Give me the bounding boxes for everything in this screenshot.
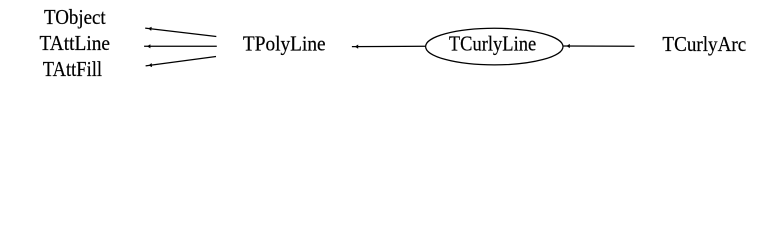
- arrow TCurlyLine to TPolyLine : head: [355, 45, 358, 49]
- ellipse around TCurlyLine: [426, 28, 563, 65]
- arrow TCurlyLine to TPolyLine : shaft: [352, 45, 426, 47]
- arrow TPolyLine to TObject : head: [148, 27, 152, 31]
- svg-text:TCurlyLine: TCurlyLine: [449, 32, 536, 56]
- arrow TPolyLine to TAttLine : shaft: [144, 45, 217, 47]
- svg-text:TPolyLine: TPolyLine: [243, 32, 326, 56]
- arrow TCurlyArc to TCurlyLine : shaft: [564, 45, 635, 47]
- arrow TPolyLine to TAttLine : head: [147, 44, 150, 48]
- arrow TPolyLine to TAttFill : head: [149, 63, 153, 67]
- svg-text:TObject: TObject: [44, 5, 106, 29]
- arrow TPolyLine to TObject : shaft: [145, 28, 216, 36]
- svg-text:TAttFill: TAttFill: [43, 57, 102, 81]
- svg-text:TAttLine: TAttLine: [40, 31, 111, 55]
- arrow TPolyLine to TAttFill : shaft: [146, 57, 216, 66]
- svg-text:TCurlyArc: TCurlyArc: [662, 32, 746, 56]
- arrow TCurlyArc to TCurlyLine : head: [566, 44, 569, 48]
